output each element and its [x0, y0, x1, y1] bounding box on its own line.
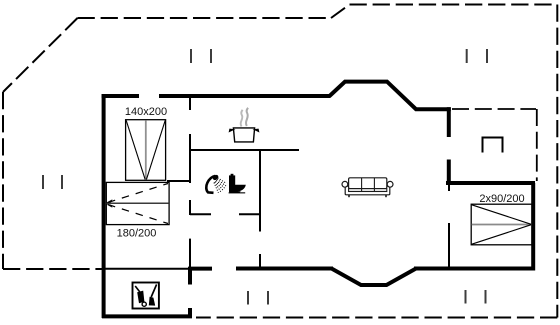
interior wall bathroom south right	[239, 213, 261, 215]
exterior wall left	[102, 94, 106, 318]
tick pair left (access marker)	[42, 175, 44, 189]
interior wall hall jamb top	[189, 97, 191, 110]
chimney symbol on terrace	[483, 138, 503, 153]
stove pot	[229, 128, 258, 142]
tick pair top (access marker)	[190, 49, 192, 63]
exterior wall utility east upper	[189, 239, 191, 267]
exterior wall bedroom-right top	[446, 181, 535, 185]
interior wall hall lower segment	[189, 200, 191, 215]
shower head	[206, 174, 219, 193]
toilet	[229, 174, 246, 194]
interior wall bedroom2 south	[102, 268, 189, 270]
plot boundary dashed top edge	[78, 17, 332, 19]
exterior wall top, left of window	[102, 94, 139, 98]
shower spray	[214, 178, 227, 193]
interior wall bedroom-right west lower	[448, 223, 450, 267]
plot boundary dashed top-right edge	[350, 4, 558, 6]
exterior wall bottom right section	[414, 267, 535, 271]
terrace dashed top edge (right terrace)	[452, 108, 536, 110]
stove pot steam	[241, 110, 243, 127]
exterior wall bedroom-right east	[531, 183, 535, 271]
cleaning cupboard icon	[133, 283, 159, 309]
svg-text:2x90/200: 2x90/200	[479, 193, 524, 205]
exterior wall bottom left of bay	[236, 267, 333, 271]
interior wall hall middle (door gaps above and below)	[189, 134, 191, 183]
bed 140x200	[126, 120, 166, 181]
svg-text:140x200: 140x200	[125, 106, 167, 118]
window gap then exterior wall top, right of window	[159, 94, 330, 98]
exterior wall utility east lower (door gap above)	[188, 308, 192, 318]
svg-text:180/200: 180/200	[117, 228, 157, 240]
tick pair top right (access marker)	[466, 49, 468, 63]
plot boundary dashed bottom-left edge	[3, 268, 102, 270]
interior wall bathroom east upper	[259, 150, 261, 232]
interior wall kitchen counter line	[190, 149, 299, 151]
plot boundary dashed top-left diagonal	[3, 18, 78, 92]
bunk bed 180/200	[106, 182, 169, 224]
exterior wall north bay	[329, 82, 451, 110]
exterior wall utility bottom	[102, 314, 192, 318]
exterior wall entrance stub (door gap to the right)	[188, 267, 212, 271]
bed 2x90/200	[471, 204, 532, 245]
exterior wall east upper segment	[447, 107, 451, 137]
interior wall between bedrooms	[167, 180, 191, 182]
plot boundary dashed upper diagonal	[331, 5, 350, 19]
exterior wall south bay	[332, 269, 417, 286]
sofa	[342, 178, 393, 197]
terrace dashed right edge (right terrace)	[536, 109, 538, 181]
plot boundary dashed left edge	[2, 92, 4, 269]
plot boundary dashed bottom edge	[196, 317, 557, 319]
interior wall bathroom south left	[190, 213, 211, 215]
plot boundary dashed right edge	[556, 5, 558, 318]
tick pair bottom right (access marker)	[465, 290, 467, 304]
exterior wall east lower segment (terrace door gap above)	[447, 160, 451, 186]
interior wall bedroom-right west upper stub	[448, 185, 450, 191]
tick pair bottom (access marker)	[247, 291, 249, 305]
interior wall bathroom east lower jamb	[259, 254, 261, 270]
